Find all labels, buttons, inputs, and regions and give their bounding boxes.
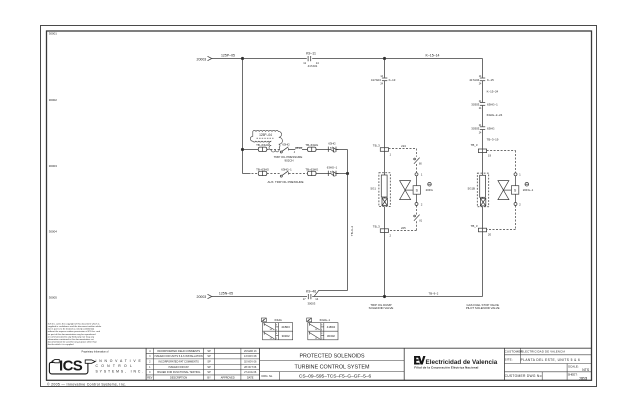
svg-text:125P–05: 125P–05 <box>221 54 235 58</box>
svg-text:5G1B: 5G1B <box>468 187 475 191</box>
node arrow 20003 top <box>208 56 212 60</box>
svg-text:225: 225 <box>401 226 406 230</box>
logo swoosh arrows <box>49 360 95 374</box>
relay cross-reference table 63HG-1 <box>307 318 338 340</box>
svg-text:K–15–24: K–15–24 <box>487 89 499 93</box>
svg-text:17: 17 <box>303 297 306 301</box>
svg-text:41B04: 41B04 <box>327 325 336 329</box>
note paragraph copyright notice <box>48 322 102 346</box>
solenoid coil 5G1 <box>381 175 387 197</box>
contact 63HG <box>480 126 485 128</box>
svg-text:TURBINE CONTROL SYSTEM: TURBINE CONTROL SYSTEM <box>295 365 370 371</box>
wire bottom bus <box>212 296 307 298</box>
limit switch 80 <box>414 158 420 164</box>
svg-text:30302: 30302 <box>282 334 290 338</box>
svg-text:417A04: 417A04 <box>371 78 381 82</box>
svg-text:nor in part is to be treated a: nor in part is to be treated as strictly… <box>48 328 95 331</box>
wire branch1 to TB <box>384 81 386 148</box>
svg-text:BY: BY <box>207 377 211 380</box>
svg-text:30005: 30005 <box>49 295 57 299</box>
wire dashed 224 <box>389 148 417 150</box>
svg-text:TB–9–2: TB–9–2 <box>429 292 439 296</box>
contact stroke row2 t1 <box>264 332 275 339</box>
svg-text:ICS Inc. owns the copyright of: ICS Inc. owns the copyright of this docu… <box>48 322 101 325</box>
wire branch1 below coil <box>384 207 386 229</box>
svg-text:no part of this documentation: no part of this documentation may be rep… <box>48 333 96 336</box>
svg-text:PROTECTED SOLENOIDS: PROTECTED SOLENOIDS <box>299 354 365 360</box>
svg-text:30004: 30004 <box>49 230 57 234</box>
title block grid <box>47 348 592 380</box>
svg-text:19: 19 <box>488 153 492 157</box>
svg-text:30003: 30003 <box>308 301 316 305</box>
svg-text:63HG–1: 63HG–1 <box>281 167 292 171</box>
svg-text:28 OCT 06: 28 OCT 06 <box>244 366 257 369</box>
svg-text:20003: 20003 <box>197 295 207 299</box>
svg-text:Proprietary Information of: Proprietary Information of <box>82 351 109 354</box>
wire rung1 left <box>243 149 259 151</box>
svg-text:29 MAR 13: 29 MAR 13 <box>244 350 257 353</box>
rung 2: aux trip oil pressure <box>243 171 349 177</box>
port circle 1 valve1 <box>415 173 418 176</box>
svg-text:TB–63HG: TB–63HG <box>256 143 270 147</box>
svg-text:63HG: 63HG <box>487 127 495 131</box>
svg-text:63HG–2–24: 63HG–2–24 <box>487 113 503 117</box>
revision cloud 125P-04 <box>250 130 282 152</box>
svg-text:TB–63HG: TB–63HG <box>305 167 319 171</box>
svg-text:CS–09–595–TCS–F5–G–GF–5–6: CS–09–595–TCS–F5–G–GF–5–6 <box>299 374 372 380</box>
limit switch 81 <box>416 206 418 215</box>
wire 63HG-2-24 <box>482 106 484 127</box>
svg-text:that for which it is supplied: that for which it is supplied <box>48 343 74 346</box>
svg-text:INCORPORATED FAT COMMENTS: INCORPORATED FAT COMMENTS <box>158 361 199 364</box>
wire to coil rung2 <box>316 173 328 175</box>
svg-text:without the express written pe: without the express written permission o… <box>48 330 101 333</box>
node junction dot branch1 bottom <box>383 295 385 297</box>
svg-text:TB_3: TB_3 <box>373 143 380 147</box>
wire to coil rung1 <box>316 149 328 151</box>
wire branch1 into coil <box>384 151 386 175</box>
svg-text:SHEET:: SHEET: <box>568 373 578 377</box>
svg-text:NTS: NTS <box>582 368 590 372</box>
rung 1: trip oil pressure <box>243 147 348 153</box>
port circle 2 valve2 <box>515 194 517 202</box>
svg-text:SP: SP <box>207 361 211 364</box>
outer border frame <box>41 26 597 387</box>
solenoid operator S box 20FG-1 <box>511 186 518 195</box>
enclosure dashed box 5G1 <box>379 173 390 207</box>
svg-text:63HG: 63HG <box>275 318 282 322</box>
enclosure dashed box 5G1B <box>477 173 488 207</box>
node arrow 20003 bottom <box>208 294 212 298</box>
wire left bus vertical <box>242 59 244 174</box>
wire branch2 into coil <box>482 153 484 176</box>
wire branch1 to bottom bus <box>384 232 386 296</box>
svg-text:ISSUED FOR UNITS 5 & 6 INSTALL: ISSUED FOR UNITS 5 & 6 INSTALLATION <box>155 355 203 358</box>
svg-text:REV: REV <box>147 377 152 380</box>
svg-text:supplied in confidence and the: supplied in confidence and the document … <box>48 325 102 328</box>
node junction dot left bus top <box>241 57 243 59</box>
branch 1 trip oil dump solenoid <box>379 59 390 297</box>
wire dashed rung2 <box>267 173 280 175</box>
terminal TB-63HG rung2 right <box>308 171 317 175</box>
contact K9-11 <box>307 56 309 61</box>
svg-text:K9–11: K9–11 <box>306 52 316 56</box>
suppressor X-box 5G1B <box>480 198 485 206</box>
svg-text:63HG–1: 63HG–1 <box>327 165 338 169</box>
vent symbol 20FG <box>428 182 432 186</box>
svg-text:63HG: 63HG <box>282 142 289 146</box>
contact K9-46 <box>307 294 309 299</box>
svg-text:PLANTA DEL ESTE, UNITS 5 & 6: PLANTA DEL ESTE, UNITS 5 & 6 <box>521 358 581 362</box>
wire K-15-24 <box>482 81 484 102</box>
svg-text:CONTROL: CONTROL <box>96 364 136 368</box>
svg-text:TB_3: TB_3 <box>471 224 478 228</box>
wire rung2 left <box>243 173 251 175</box>
svg-text:TB_3: TB_3 <box>471 143 478 147</box>
port circle 1 valve2 <box>514 173 517 176</box>
svg-text:documentation be used for any: documentation be used for any purpose ot… <box>48 341 98 344</box>
svg-text:27 AUG 06: 27 AUG 06 <box>244 371 257 374</box>
terminal TB_3 pin1 <box>380 148 388 152</box>
pressure switch 63HG-1 <box>280 175 282 177</box>
svg-text:11: 11 <box>303 61 306 65</box>
wire branch2 below coil <box>482 207 484 228</box>
drawing title section <box>260 361 405 381</box>
svg-text:SP: SP <box>207 350 211 353</box>
wire dashed rung2 mid <box>289 173 308 175</box>
wire branch1 upper <box>384 59 386 78</box>
svg-text:417A04: 417A04 <box>469 78 479 82</box>
svg-text:SCALE:: SCALE: <box>568 364 579 368</box>
svg-text:or communicated to any third p: or communicated to any third party nor m… <box>48 335 95 338</box>
wire dashed 225 <box>416 221 418 230</box>
valve body 20FG <box>400 181 411 191</box>
svg-text:© 2005 — Innovative Contr: © 2005 — Innovative Control Systems, Inc… <box>47 382 126 386</box>
bottom bus 125N-05 <box>208 294 483 299</box>
svg-text:125P–04: 125P–04 <box>259 133 272 137</box>
relay cross-reference table 63HG <box>261 318 292 340</box>
svg-text:DATE: DATE <box>247 377 254 380</box>
terminal TB_3 pin19 <box>478 149 486 153</box>
terminal TB_3 pin20 <box>478 228 486 232</box>
solenoid operator S box 20FG <box>413 186 420 195</box>
svg-text:CUSTOMER DWG No.: CUSTOMER DWG No. <box>505 374 543 378</box>
svg-text:SP: SP <box>207 371 211 374</box>
port circle 2 valve1 <box>416 194 418 202</box>
pressure switch 63HG <box>280 151 282 153</box>
svg-text:K–15: K–15 <box>487 78 494 82</box>
contact stroke row1 t1 <box>264 324 275 330</box>
solenoid coil 5G1B <box>480 175 486 197</box>
label INNOVATIVE CONTROL SYSTEMS INC <box>96 359 146 373</box>
svg-text:TB–3–19: TB–3–19 <box>487 137 499 141</box>
svg-text:30303: 30303 <box>471 127 479 131</box>
coil 63HG-1 <box>327 171 329 176</box>
svg-text:ISSUED FOR FUNCTIONAL TESTING: ISSUED FOR FUNCTIONAL TESTING <box>157 371 200 374</box>
svg-text:INCORPORATED FIELD COMMENTS: INCORPORATED FIELD COMMENTS <box>157 350 200 353</box>
svg-text:20FG: 20FG <box>426 188 434 192</box>
svg-text:303: 303 <box>579 376 587 382</box>
node junction dot branch1 top <box>383 57 385 59</box>
svg-text:63HG–1: 63HG–1 <box>320 318 331 322</box>
svg-text:ISSUED FOR FAT: ISSUED FOR FAT <box>168 366 189 369</box>
inner border frame <box>47 31 592 380</box>
valve assembly 20FG <box>388 149 431 231</box>
svg-text:902CH: 902CH <box>285 158 294 162</box>
svg-text:20FG–1: 20FG–1 <box>523 188 534 192</box>
svg-text:TB_3: TB_3 <box>373 225 380 229</box>
node junction dot left bus rung1 <box>241 148 243 150</box>
svg-text:63HG–1: 63HG–1 <box>487 102 498 106</box>
svg-text:224: 224 <box>401 144 406 148</box>
svg-text:K9–46: K9–46 <box>306 290 316 294</box>
svg-text:30303: 30303 <box>471 102 479 106</box>
terminal TB_3 pin2 <box>380 229 388 233</box>
svg-text:63HG: 63HG <box>328 141 335 145</box>
svg-text:14: 14 <box>315 297 318 301</box>
wire rung1 to bus <box>336 149 348 151</box>
terminal TB-63HG rung1 left <box>258 147 267 151</box>
contact stroke row2 t2 <box>309 332 320 339</box>
svg-text:20: 20 <box>488 233 492 237</box>
wire branch2 upper <box>482 59 484 78</box>
svg-text:SP: SP <box>207 355 211 358</box>
svg-text:INNOVATIVE: INNOVATIVE <box>96 359 144 363</box>
contact K-13 <box>382 77 387 79</box>
node junction dot rung2 bus <box>346 172 348 174</box>
coil 63HG <box>327 147 329 152</box>
svg-text:30002: 30002 <box>49 98 57 102</box>
customer info section <box>505 348 592 380</box>
branch 2 gas fuel stop valve pilot solenoid <box>477 59 488 297</box>
suppressor X-box 5G1 <box>382 198 387 206</box>
svg-text:ELECTRICIDAD DE VALENCIA: ELECTRICIDAD DE VALENCIA <box>521 350 565 354</box>
svg-text:30302: 30302 <box>327 334 335 338</box>
svg-text:Filial de la Corporación Eléct: Filial de la Corporación Eléctrica Nacio… <box>414 365 478 369</box>
wire dashed rung1 <box>267 149 280 151</box>
wire TB-3-19 <box>482 130 484 149</box>
contact 63HG-1 <box>480 102 485 104</box>
svg-text:PILOT SOLENOID VALVE: PILOT SOLENOID VALVE <box>466 306 500 310</box>
valve assembly 20FG-1 <box>486 151 528 230</box>
valve body 20FG-1 <box>498 181 509 191</box>
svg-text:41B03: 41B03 <box>281 325 290 329</box>
svg-text:K–13: K–13 <box>389 78 396 82</box>
contact stroke row1 t2 <box>309 324 320 330</box>
contact K-15 <box>480 77 485 79</box>
svg-text:AUX. TRIP OIL PRESSURE: AUX. TRIP OIL PRESSURE <box>267 180 303 184</box>
terminal TB-63HG rung2 left <box>258 171 267 175</box>
svg-text:30003: 30003 <box>49 164 57 168</box>
logo EV monogram <box>414 356 425 365</box>
wire dashed from pin19 <box>487 150 516 152</box>
svg-text:30001: 30001 <box>49 32 57 36</box>
svg-text:20003: 20003 <box>197 58 207 62</box>
svg-text:APPROVED: APPROVED <box>221 377 235 380</box>
wire branch2 to bottom bus <box>482 232 484 297</box>
svg-text:28SR: 28SR <box>295 146 302 150</box>
svg-text:5G1: 5G1 <box>371 186 377 190</box>
svg-text:DWG. No.: DWG. No. <box>262 375 274 378</box>
svg-text:ICS: ICS <box>59 357 83 374</box>
svg-text:125N–05: 125N–05 <box>219 292 233 296</box>
wire rung bus TB-9-2 <box>314 150 347 297</box>
vent symbol 20FG-1 <box>525 182 529 186</box>
svg-text:SYSTEMS, INC.: SYSTEMS, INC. <box>96 369 146 373</box>
wire rung2 to bus <box>336 173 348 175</box>
svg-text:13 NOV 08: 13 NOV 08 <box>244 355 257 358</box>
wire dashed valve2 return <box>515 206 517 230</box>
svg-text:information contained in this: information contained in this documentat… <box>48 338 94 341</box>
wire top bus 125P-05 <box>212 58 307 60</box>
svg-text:K–15–14: K–15–14 <box>425 53 439 57</box>
wire rung1 right <box>302 149 308 151</box>
svg-text:TB–9–2: TB–9–2 <box>350 226 354 237</box>
svg-text:SP: SP <box>207 366 211 369</box>
svg-text:TB–63HG: TB–63HG <box>305 143 319 147</box>
svg-text:417A01: 417A01 <box>308 64 318 68</box>
svg-text:TB–63HG: TB–63HG <box>256 167 270 171</box>
svg-text:SOLENOID VALVE: SOLENOID VALVE <box>369 306 394 310</box>
svg-text:DESCRIPTION: DESCRIPTION <box>170 377 187 380</box>
svg-text:02 NOV 06: 02 NOV 06 <box>244 361 257 364</box>
svg-text:SITE:: SITE: <box>505 358 513 362</box>
revision table <box>146 348 260 380</box>
terminal TB-63HG rung1 right <box>308 147 317 151</box>
